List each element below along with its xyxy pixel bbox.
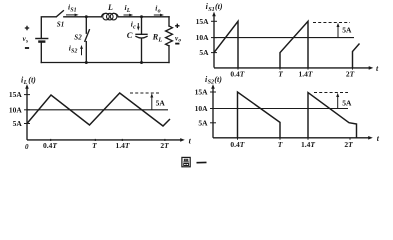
svg-text:T: T [278,70,283,79]
switch S2 blade [85,30,90,41]
10A average line [213,108,348,110]
10A average line [27,109,168,111]
axis tick marks [211,21,353,69]
x tick labels [230,70,354,79]
battery vs short thick plate [38,40,45,42]
axis tick marks [210,92,350,140]
svg-text:0.4T: 0.4T [230,70,244,79]
y-axis iL [26,87,28,140]
svg-text:s: s [25,39,28,45]
svg-text:T: T [278,140,283,149]
svg-text:S1: S1 [57,20,64,28]
battery vs long plate [35,38,48,40]
svg-text:10A: 10A [9,105,23,114]
x tick labels [230,140,353,149]
label vo [175,34,181,43]
wire: S2 branch upper segment [85,17,87,33]
svg-text:5A: 5A [342,98,352,107]
svg-text:(t): (t) [28,75,36,84]
y-axis arrowhead [25,84,29,89]
title iS2(t) [205,75,222,86]
bottom wire [41,62,169,64]
title iL(t) [21,75,36,86]
svg-text:L: L [107,3,113,12]
label iL with arrow [124,3,134,16]
title iS1(t) [206,2,223,13]
node dot: bottom C junction [140,61,143,64]
label io with arrow [154,3,164,16]
5A ripple arrow [151,96,153,110]
inductor L winding [103,13,110,20]
wire: top wire from inductor to right corner [118,16,169,18]
svg-text:5A: 5A [198,118,208,127]
x-axis iS1 [214,67,371,69]
svg-text:T: T [92,141,97,150]
svg-text:o: o [158,8,161,14]
svg-text:5A: 5A [156,99,166,108]
svg-text:c: c [133,25,136,31]
resistor RL bottom lead [168,46,170,63]
dashed 15A level [130,92,161,94]
switch S1 blade [57,11,64,17]
5A ripple arrow [337,96,339,109]
svg-text:S1: S1 [70,8,76,14]
capacitor C bottom plate (curved) [136,36,147,38]
label vs [23,35,29,44]
label + (load) [175,24,179,28]
svg-text:0: 0 [25,143,29,151]
svg-text:C: C [127,30,133,40]
capacitor C top plate [136,33,147,35]
5A ripple arrow [337,26,339,38]
x-axis iS2 [213,137,370,139]
wire: source top lead + top wire left of S1 [41,17,56,39]
label iS1 with arrow [66,3,79,17]
y-axis arrowhead [212,12,216,17]
svg-text:(t): (t) [214,75,222,84]
node dot: L/C/load junction [140,15,143,18]
svg-text:5A: 5A [342,25,352,34]
10A average line [214,37,354,39]
resistor RL top lead [168,17,170,26]
y-axis iS1 [213,14,215,68]
label iS2 with up arrow [69,44,83,56]
caption glyph 圖 (drawn) [182,157,190,166]
svg-text:1.4T: 1.4T [116,141,130,150]
svg-text:L: L [157,36,162,43]
svg-text:15A: 15A [9,90,23,99]
label - (source) [25,47,29,49]
y-axis iS2 [212,87,214,138]
svg-text:1.4T: 1.4T [299,70,313,79]
label RL [152,32,163,44]
iS2 waveform [238,92,357,138]
x-axis arrowhead [368,136,373,140]
wire: top wire from S1 to inductor [64,16,102,18]
axis tick marks [24,95,165,141]
label - (load) [175,43,179,45]
svg-text:15A: 15A [195,88,209,97]
resistor RL zigzag [166,26,173,46]
svg-text:10A: 10A [196,33,210,42]
x-axis arrowhead [369,66,374,70]
label + (source) [25,26,29,30]
svg-text:S2: S2 [71,49,77,55]
svg-text:10A: 10A [195,104,209,113]
y-axis arrowhead [211,84,215,89]
svg-text:2T: 2T [160,141,169,150]
capacitor C bottom lead [141,38,143,62]
x-axis iL [27,139,182,141]
svg-text:1.4T: 1.4T [301,140,315,149]
svg-text:2T: 2T [344,140,353,149]
svg-text:2T: 2T [346,70,355,79]
svg-text:0.4T: 0.4T [230,140,244,149]
source bottom lead [40,42,42,63]
iS1 waveform [214,21,360,67]
svg-text:S2: S2 [74,33,82,41]
dashed 15A level [314,92,348,94]
wire: S2 branch lower segment [85,42,87,63]
caption glyph 一 [197,161,207,163]
svg-text:(t): (t) [215,2,223,11]
svg-text:5A: 5A [199,48,209,57]
iL waveform [27,93,170,126]
node dot: S1/S2/L junction [85,15,88,18]
label ic with down arrow [131,20,140,31]
svg-text:0.4T: 0.4T [43,141,57,150]
x tick labels [25,141,169,151]
dashed 15A level [313,22,350,24]
node dot: bottom S2 junction [85,61,88,64]
svg-text:L: L [126,8,131,14]
capacitor C top lead [141,17,143,34]
svg-text:S1: S1 [208,6,215,13]
svg-text:5A: 5A [13,119,23,128]
x-axis arrowhead [180,138,185,142]
svg-text:15A: 15A [196,17,210,26]
